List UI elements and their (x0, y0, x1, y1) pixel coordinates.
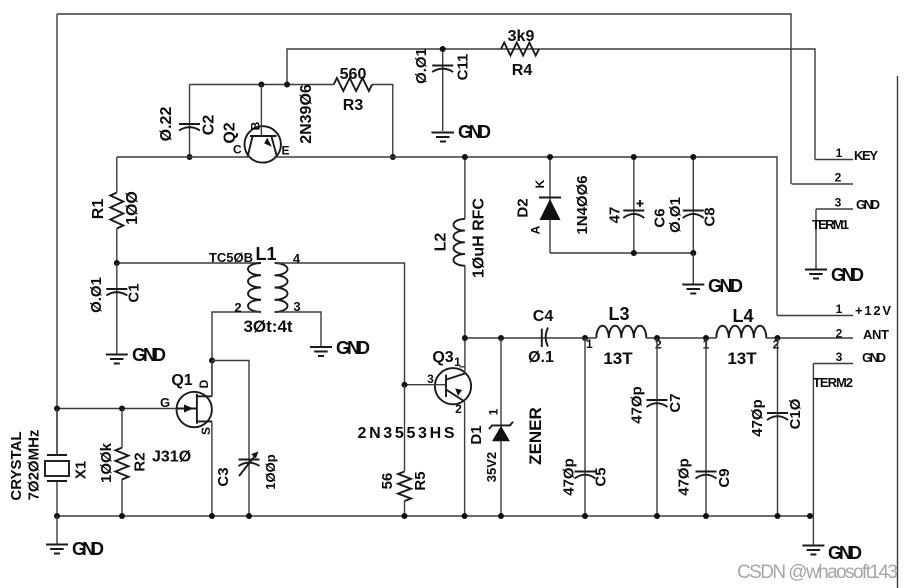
transistor Q1 J310 (152, 361, 213, 517)
svg-text:47Øp: 47Øp (675, 458, 692, 496)
svg-text:C2: C2 (201, 115, 218, 136)
capacitor C9 (675, 338, 732, 516)
svg-text:Q1: Q1 (171, 372, 192, 389)
capacitor C1 (88, 263, 142, 354)
svg-text:C8: C8 (701, 207, 718, 226)
svg-text:L3: L3 (608, 304, 629, 324)
svg-text:Ø.22: Ø.22 (158, 107, 175, 142)
terminal TERM1 (792, 146, 880, 269)
svg-text:3k9: 3k9 (508, 28, 535, 45)
svg-text:E: E (282, 144, 290, 158)
svg-text:47Øp: 47Øp (560, 458, 577, 496)
svg-text:TERM1: TERM1 (812, 217, 849, 232)
svg-text:ZENER: ZENER (526, 407, 545, 465)
svg-text:TERM2: TERM2 (813, 375, 853, 390)
svg-text:GND: GND (856, 197, 880, 212)
svg-text:3: 3 (836, 350, 843, 364)
svg-text:C1: C1 (125, 283, 142, 302)
wire oscillator node y=263 (117, 262, 261, 264)
transistor Q2 2N3906 (222, 84, 315, 162)
svg-text:13T: 13T (603, 349, 633, 368)
resistor R3 (334, 66, 372, 114)
svg-text:4: 4 (293, 251, 301, 266)
svg-text:1: 1 (486, 408, 500, 415)
svg-text:GND: GND (828, 543, 862, 563)
svg-text:Ø.1: Ø.1 (528, 349, 554, 366)
inductor L2 (433, 154, 488, 338)
svg-text:3: 3 (835, 196, 842, 210)
capacitor C8 (667, 154, 719, 256)
wire right page border (897, 76, 899, 588)
svg-text:Q2: Q2 (222, 122, 239, 143)
capacitor C5 (560, 338, 609, 516)
svg-text:C3: C3 (215, 467, 232, 486)
diode D1 zener 35V2 (468, 338, 545, 516)
capacitor C3 variable (215, 452, 278, 517)
transformer L1 (209, 244, 405, 385)
svg-text:1N4ØØ6: 1N4ØØ6 (574, 175, 591, 234)
svg-text:D1: D1 (468, 425, 485, 444)
svg-text:3: 3 (427, 372, 434, 386)
svg-text:TC5ØB: TC5ØB (209, 250, 253, 265)
svg-text:GND: GND (831, 265, 864, 285)
inductor L4 13T (703, 306, 853, 368)
svg-text:2: 2 (455, 402, 462, 416)
svg-text:47Øp: 47Øp (629, 386, 646, 424)
ground L1 pin3 (310, 338, 370, 358)
svg-text:2: 2 (835, 171, 842, 185)
svg-text:C1Ø: C1Ø (787, 398, 804, 429)
crystal X1 (8, 409, 90, 517)
svg-text:2: 2 (234, 300, 241, 315)
ground TERM1 (805, 265, 864, 285)
inductor L3 13T (582, 304, 706, 368)
resistor R1 (90, 157, 141, 263)
capacitor C11 (413, 46, 472, 131)
wire D2 anode net y=253 (550, 252, 693, 254)
svg-text:C5: C5 (592, 467, 609, 486)
svg-text:C7: C7 (667, 393, 684, 412)
svg-text:GND: GND (72, 539, 104, 559)
svg-text:R4: R4 (512, 62, 533, 79)
svg-text:D: D (197, 379, 211, 388)
svg-text:1ØØk: 1ØØk (98, 442, 115, 483)
svg-text:X1: X1 (73, 461, 90, 479)
svg-text:GND: GND (862, 350, 886, 365)
svg-text:K: K (533, 179, 547, 188)
svg-text:13T: 13T (727, 349, 757, 368)
svg-text:KEY: KEY (854, 148, 878, 163)
capacitor C6 electrolytic (607, 154, 669, 256)
svg-text:3Øt:4t: 3Øt:4t (243, 317, 292, 336)
svg-text:1ØuH RFC: 1ØuH RFC (470, 198, 487, 278)
ground C11 (432, 122, 492, 142)
svg-text:C11: C11 (454, 54, 471, 81)
svg-text:L2: L2 (433, 233, 450, 252)
svg-text:47Øp: 47Øp (749, 399, 766, 437)
svg-text:1ØØ: 1ØØ (124, 191, 141, 225)
resistor R4 (501, 28, 539, 79)
capacitor C7 (629, 338, 684, 516)
ground TERM2 bottom (802, 516, 862, 563)
svg-text:G: G (160, 395, 170, 410)
wire main rail y=157 emitter side to +12V corner (274, 157, 777, 316)
svg-text:C9: C9 (716, 468, 733, 487)
ground bottom-left (46, 516, 104, 559)
wire gate net y=408.5 (57, 408, 177, 410)
resistor R2 (98, 409, 149, 517)
wire PA output net y=338 (465, 337, 585, 339)
terminal TERM2 (777, 302, 891, 516)
svg-text:GND: GND (458, 122, 491, 142)
svg-text:GND: GND (708, 276, 743, 296)
transistor Q3 2N3553HS (358, 338, 472, 516)
svg-text:GND: GND (132, 345, 166, 365)
svg-text:2N39Ø6: 2N39Ø6 (298, 84, 315, 144)
svg-text:2: 2 (773, 338, 780, 352)
wire main rail y=157 collector side (117, 156, 250, 158)
svg-text:2N3553HS: 2N3553HS (358, 425, 455, 442)
svg-text:1: 1 (836, 146, 843, 160)
wire keying line to KEY pin (287, 49, 815, 160)
svg-text:35V2: 35V2 (484, 452, 499, 482)
svg-text:L4: L4 (732, 306, 753, 326)
node L1 pin2 / Q1 drain junction (209, 358, 249, 460)
resistor R5 (379, 385, 429, 516)
svg-text:R1: R1 (90, 199, 107, 220)
svg-text:3: 3 (293, 299, 300, 314)
wire left border (56, 14, 58, 455)
ground C8 (682, 253, 743, 296)
svg-text:L1: L1 (255, 244, 276, 264)
diode D2 1N4006 (514, 154, 591, 253)
svg-text:ANT: ANT (863, 327, 889, 342)
wire top border to TERM1 pin2 (57, 14, 791, 184)
svg-text:Ø.Ø1: Ø.Ø1 (413, 48, 430, 84)
svg-text:A: A (528, 225, 542, 234)
svg-text:J31Ø: J31Ø (152, 449, 191, 466)
svg-text:1: 1 (836, 302, 843, 316)
svg-text:B: B (249, 121, 263, 130)
wire Q2 base net y=84.5 (190, 85, 393, 158)
svg-text:R2: R2 (132, 452, 149, 471)
svg-text:GND: GND (336, 338, 370, 358)
svg-text:+12V: +12V (855, 303, 891, 318)
svg-text:D2: D2 (514, 198, 531, 217)
wire ground rail bottom y=516 (57, 515, 813, 517)
svg-text:S: S (199, 427, 213, 435)
svg-text:1ØØp: 1ØØp (263, 454, 278, 489)
svg-text:R5: R5 (412, 471, 429, 490)
capacitor C10 (749, 338, 804, 516)
svg-text:Ø.Ø1: Ø.Ø1 (88, 277, 105, 313)
svg-text:CSDN @whaosoft143: CSDN @whaosoft143 (737, 562, 898, 583)
svg-text:7Ø2ØMHz: 7Ø2ØMHz (25, 430, 42, 501)
svg-text:560: 560 (340, 66, 367, 83)
svg-text:Ø.Ø1: Ø.Ø1 (667, 197, 684, 233)
capacitor C2 (158, 85, 218, 161)
capacitor C4 (528, 308, 554, 366)
ground C1 (106, 345, 166, 365)
svg-text:CRYSTAL: CRYSTAL (8, 431, 25, 500)
svg-text:R3: R3 (343, 97, 364, 114)
svg-text:Q3: Q3 (432, 349, 453, 366)
svg-text:1: 1 (586, 337, 593, 351)
svg-text:C4: C4 (533, 308, 554, 325)
svg-text:2: 2 (655, 338, 662, 352)
svg-text:47: 47 (607, 207, 624, 224)
svg-text:56: 56 (379, 473, 396, 490)
svg-text:2: 2 (836, 327, 843, 341)
